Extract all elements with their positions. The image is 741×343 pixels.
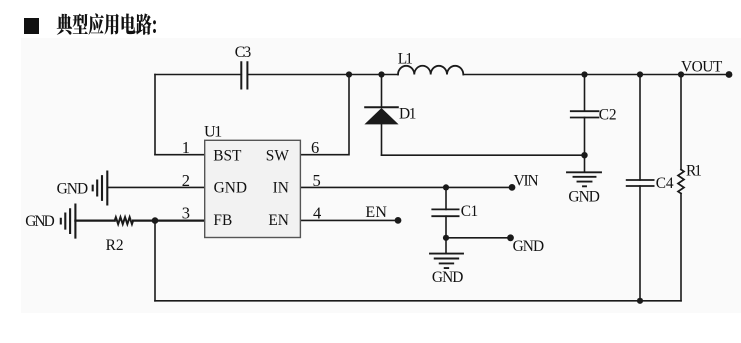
wire D1 to C2 bottom bbox=[382, 154, 585, 156]
svg-text:SW: SW bbox=[266, 148, 290, 165]
svg-text:IN: IN bbox=[273, 180, 289, 197]
svg-text:C1: C1 bbox=[461, 203, 479, 220]
ground symbol at pin 3 (rotated) bbox=[61, 205, 76, 238]
svg-text:C2: C2 bbox=[599, 106, 617, 123]
capacitor C1 top lead bbox=[445, 187, 447, 209]
junction node at SW riser top bbox=[346, 71, 352, 77]
capacitor C4 top lead bbox=[639, 75, 641, 181]
wire top rail left segment to C3 bbox=[155, 74, 241, 76]
title bullet square bbox=[24, 18, 39, 34]
wire left riser C3 to pin1 bbox=[154, 75, 156, 155]
svg-text:GND: GND bbox=[57, 180, 89, 197]
terminal node GND right of C1 bbox=[507, 234, 514, 241]
svg-text:GND: GND bbox=[214, 180, 247, 197]
svg-text:L1: L1 bbox=[398, 51, 413, 68]
svg-text:R2: R2 bbox=[106, 237, 124, 254]
ground below C1 stem bbox=[445, 238, 447, 253]
junction node D1-C2 bottom bbox=[581, 152, 587, 158]
svg-text:VOUT: VOUT bbox=[681, 59, 723, 76]
svg-text:BST: BST bbox=[213, 148, 242, 165]
junction node at C2 top bbox=[581, 71, 587, 77]
junction node at D1 top bbox=[378, 71, 384, 77]
resistor R1 bottom lead bbox=[680, 194, 682, 301]
svg-text:C3: C3 bbox=[235, 44, 252, 61]
junction node at R1 top bbox=[678, 71, 684, 77]
svg-text:1: 1 bbox=[182, 138, 190, 157]
wire pin 5 IN to VIN bbox=[300, 186, 512, 188]
svg-text:GND: GND bbox=[25, 213, 55, 230]
svg-text:EN: EN bbox=[268, 212, 289, 229]
capacitor C4 plates bbox=[627, 180, 654, 186]
capacitor C4 bottom lead bbox=[639, 186, 641, 301]
wire pin 3 FB left segment bbox=[75, 220, 114, 222]
ground below C2 stem bbox=[584, 155, 586, 171]
svg-text:R1: R1 bbox=[686, 163, 702, 180]
svg-text:6: 6 bbox=[311, 138, 319, 157]
junction node FB bbox=[152, 217, 159, 224]
capacitor C2 bottom lead bbox=[584, 118, 586, 156]
svg-text:5: 5 bbox=[313, 171, 321, 190]
inductor L1 bbox=[398, 66, 463, 75]
wire R2 to pin 3 bbox=[133, 220, 205, 222]
wire pin 6 SW to riser bbox=[300, 75, 349, 155]
resistor R1 zigzag bbox=[678, 170, 684, 194]
wire D1 below bbox=[381, 124, 383, 155]
wire pin 2 GND bbox=[108, 186, 205, 188]
capacitor C3 plates bbox=[241, 62, 247, 88]
wire top rail C3 to L1 bbox=[247, 74, 398, 76]
terminal node VIN bbox=[509, 184, 516, 191]
junction node at C4 top bbox=[637, 71, 643, 77]
svg-text:GND: GND bbox=[568, 189, 600, 206]
svg-text:2: 2 bbox=[182, 171, 190, 190]
wire pin 1 BST bbox=[155, 154, 205, 156]
ground below C1 bars bbox=[430, 254, 463, 269]
capacitor C2 top lead bbox=[584, 75, 586, 112]
svg-text:GND: GND bbox=[432, 269, 464, 286]
wire bottom rail bbox=[155, 300, 681, 302]
svg-text:VIN: VIN bbox=[514, 172, 539, 189]
svg-text:4: 4 bbox=[313, 204, 321, 223]
faint panel background bbox=[21, 38, 741, 313]
wire pin 4 EN bbox=[300, 219, 398, 221]
wire FB riser down bbox=[154, 221, 156, 301]
svg-text:D1: D1 bbox=[399, 106, 417, 123]
wire C1 bottom to GND terminal bbox=[446, 237, 511, 239]
wire top rail L1 to VOUT bbox=[463, 74, 729, 76]
svg-text:FB: FB bbox=[213, 212, 232, 229]
junction node at C1 top bbox=[443, 184, 449, 190]
junction node C1 bottom bbox=[443, 235, 449, 241]
wire D1 riser top bbox=[381, 75, 383, 108]
capacitor C1 bottom lead bbox=[445, 216, 447, 238]
capacitor C2 plates bbox=[571, 111, 599, 117]
svg-text:C4: C4 bbox=[656, 175, 674, 192]
svg-text:GND: GND bbox=[513, 238, 545, 255]
svg-text:3: 3 bbox=[182, 204, 190, 223]
capacitor C1 plates bbox=[432, 209, 458, 216]
diode D1 triangle bbox=[364, 108, 398, 124]
svg-text:EN: EN bbox=[365, 204, 387, 221]
terminal node EN bbox=[395, 217, 402, 224]
resistor R2 bbox=[115, 217, 133, 224]
title text 典型应用电路: bbox=[57, 13, 156, 34]
terminal node VOUT bbox=[726, 71, 733, 78]
resistor R1 top lead bbox=[680, 75, 682, 170]
svg-text:U1: U1 bbox=[204, 123, 222, 141]
junction node C4 bottom bbox=[637, 298, 643, 304]
ground below C2 bars bbox=[567, 172, 601, 186]
diode D1 cathode bar bbox=[365, 106, 398, 108]
IC U1 box bbox=[205, 140, 301, 237]
ground symbol at pin 2 (rotated) bbox=[93, 172, 108, 205]
